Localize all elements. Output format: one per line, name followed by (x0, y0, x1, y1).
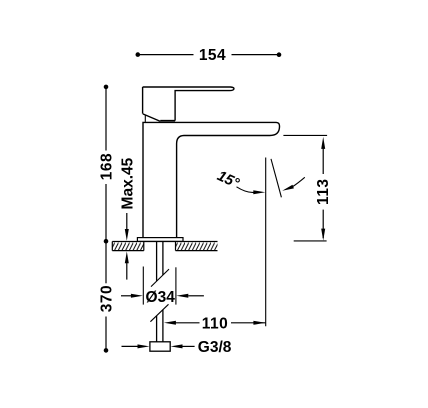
dimension Max.45 lower arrowhead pointing up (125, 251, 129, 263)
worktop hole left edge (143, 242, 145, 251)
dimension 113 lower arrowhead pointing down (321, 229, 325, 241)
svg-text:Max.45: Max.45 (120, 157, 137, 209)
faucet handle wedge inner edge (144, 115, 146, 122)
dimension 110 line right segment (231, 322, 265, 324)
dimension 154 line right segment (232, 54, 280, 56)
dimension G3/8 right arrow line (183, 345, 195, 347)
worktop top border (112, 241, 217, 243)
15 degree leader curve (237, 187, 254, 193)
dimension O34 right arrowhead (176, 294, 188, 298)
svg-text:154: 154 (199, 47, 226, 64)
dimension O34 right extension line (175, 267, 177, 304)
15 degree leader arrowhead (253, 190, 265, 194)
dimension G3/8 left arrow line (122, 345, 139, 347)
dimension O34 right arrow line (188, 295, 204, 297)
dimension 113 line upper segment (322, 145, 324, 174)
faucet handle slanted cut (143, 114, 161, 122)
pipe break mark upper (151, 269, 169, 287)
dimension 113 bottom extension line (294, 240, 327, 242)
svg-text:G3/8: G3/8 (198, 339, 232, 356)
worktop bottom border right (176, 250, 218, 252)
G3/8 connector body (150, 342, 170, 351)
dimension O34 left arrowhead (131, 294, 143, 298)
dimension 168 line lower segment (105, 184, 107, 241)
outlet tilted axis line 15 degrees (271, 159, 281, 197)
dimension 168 top dot (104, 85, 109, 90)
dimension 370 bottom dot (104, 348, 109, 353)
dimension 110 right arrowhead (253, 321, 265, 325)
svg-text:168: 168 (98, 153, 115, 180)
dimension 370 line upper segment (105, 241, 107, 283)
worktop bottom border left (112, 250, 144, 252)
dimension 168 line upper segment (105, 87, 107, 151)
svg-text:15°: 15° (215, 168, 242, 192)
faucet handle lever (top, rounded tip, underside, stem) (143, 87, 234, 121)
faucet handle bottom gap line (160, 120, 175, 122)
worktop hole right edge (175, 242, 177, 251)
faucet base flange (137, 238, 183, 242)
supply pipe upper segment right line (162, 242, 164, 275)
svg-text:110: 110 (202, 315, 229, 332)
svg-text:370: 370 (98, 285, 115, 312)
dimension O34 left arrow line (121, 295, 132, 297)
dimension Max.45 lower arrow line (126, 262, 128, 279)
worktop hatched section left (112, 242, 144, 251)
faucet body and spout outline (143, 122, 280, 237)
dimension G3/8 left arrowhead (138, 344, 150, 348)
supply pipe lower segment left line (156, 316, 158, 342)
dimension 113 top extension line (283, 134, 327, 136)
supply pipe lower segment right line (162, 310, 164, 342)
dimension O34 left extension line (142, 267, 144, 305)
worktop left end edge (111, 242, 113, 251)
worktop hatched section right (176, 242, 218, 251)
spout outlet axis vertical line (265, 158, 267, 327)
dimension Max.45 upper arrow line (126, 213, 128, 230)
svg-text:Ø34: Ø34 (146, 289, 176, 306)
dimension 370 shared dot at worktop level (104, 239, 109, 244)
dimension 110 left arrowhead (164, 321, 176, 325)
pipe break mark lower (150, 304, 168, 321)
dimension 154 left dot (136, 52, 141, 57)
dimension 113 upper arrowhead pointing up (321, 137, 325, 149)
dimension 113 line lower segment (322, 210, 324, 238)
dimension 110 line left segment (175, 322, 200, 324)
15 degree right leader curve (293, 177, 305, 186)
faucet cartridge left edge (142, 87, 144, 114)
dimension 154 right dot (277, 52, 282, 57)
dimension Max.45 upper arrowhead pointing down (125, 229, 129, 241)
dimension 370 line lower segment (105, 317, 107, 351)
dimension G3/8 right arrowhead (171, 344, 183, 348)
svg-text:113: 113 (315, 178, 332, 205)
dimension 154 line left segment (138, 54, 194, 56)
15 degree right leader arrowhead (282, 185, 294, 191)
supply pipe upper segment left line (156, 242, 158, 281)
